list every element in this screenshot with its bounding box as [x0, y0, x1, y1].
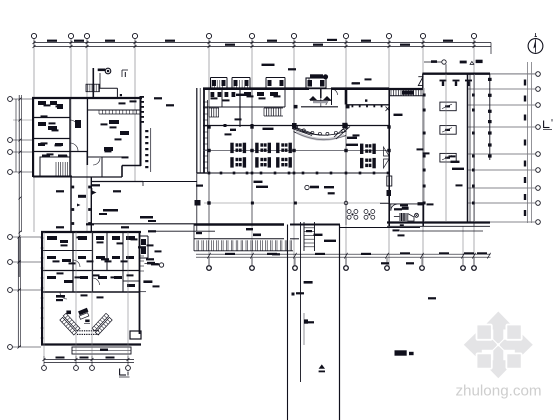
left grid circles lower — [8, 235, 41, 350]
zhulong watermark logo — [464, 312, 533, 379]
column grid circles top row — [31, 33, 476, 47]
right wing structure — [380, 74, 535, 231]
forecourt west boundary — [94, 88, 215, 232]
section mark L right — [543, 119, 552, 130]
left building outline and rooms — [32, 98, 142, 177]
north arrow — [528, 33, 543, 53]
corridor between buildings — [71, 177, 194, 232]
auditorium seating — [56, 295, 112, 335]
road annotations — [246, 228, 280, 255]
door swings — [384, 147, 390, 168]
bottom dimension line and grid circles — [196, 226, 491, 270]
plaza steps — [194, 224, 299, 251]
detail mark 1 — [122, 70, 128, 77]
main hall structure — [194, 88, 420, 228]
bottom-left dimension line and circles — [42, 356, 134, 370]
drawing title — [395, 350, 414, 355]
L1 section mark — [119, 369, 130, 378]
top dimension line chain — [33, 39, 492, 54]
vertical grid lines — [34, 47, 474, 266]
road and ramp lines — [288, 222, 340, 420]
planter boxes above main hall wall — [211, 78, 286, 89]
svg-text:zhulong.com: zhulong.com — [455, 383, 541, 400]
terrace edge colonnade — [524, 62, 532, 223]
right grid circles — [468, 72, 540, 225]
main entrance doors and steps — [294, 74, 350, 108]
west dimension band — [140, 96, 151, 172]
bottom-left building structure — [41, 232, 149, 345]
cafe tables — [347, 210, 375, 220]
corridor annotation text — [99, 209, 156, 222]
misc annotation smudges — [41, 68, 463, 323]
hall annotation smudges — [230, 64, 464, 242]
left building entrance porch — [86, 68, 122, 98]
sofa seating clusters — [230, 143, 375, 169]
porch steps bottom-left — [72, 347, 131, 354]
left grid circles upper — [8, 95, 33, 277]
plaza stair — [304, 222, 315, 251]
bottom building grid verticals — [44, 232, 128, 356]
right wing annotations — [424, 60, 483, 74]
curved reception desk — [293, 126, 347, 141]
escalators — [292, 125, 350, 140]
